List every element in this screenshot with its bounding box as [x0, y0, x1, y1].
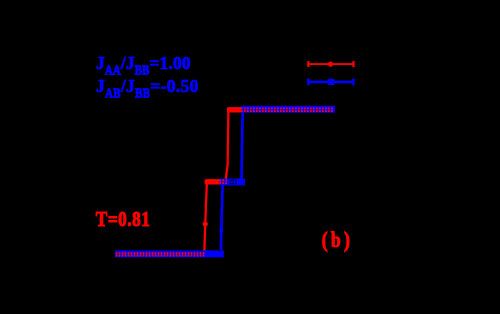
- blue jump 2 line: [241, 109, 242, 182]
- red marker rows on middle overlap: [219, 179, 228, 181]
- red jump 2 line: [225, 110, 228, 182]
- blue marker on jump 1: [220, 229, 224, 233]
- red jump 1 line: [204, 182, 207, 255]
- blue data: bottom plateau band: [115, 250, 224, 257]
- label T=0.81: [96, 208, 151, 230]
- blue jump 1 line: [221, 182, 223, 254]
- open-square holes middle band: [230, 180, 232, 182]
- legend red error-bar sample: [307, 63, 354, 65]
- red data: bottom plateau solid band: [116, 252, 206, 257]
- red marker on jump 1: [203, 221, 208, 226]
- red data: top plateau solid band (left of blue): [227, 107, 243, 112]
- label (b): [322, 230, 353, 252]
- label JAA/JBB=1.00: [96, 55, 191, 73]
- blue data: middle plateau band: [219, 179, 245, 186]
- red data: middle plateau solid band: [205, 179, 228, 184]
- red marker rows on bottom plateau: [116, 252, 205, 254]
- label JAB/JBB=-0.50: [96, 78, 199, 96]
- blue data: top plateau band: [241, 106, 335, 113]
- legend blue error-bar sample: [307, 81, 354, 84]
- red marker rows on top plateau: [241, 107, 334, 109]
- open-square hole bottom band right: [219, 250, 221, 252]
